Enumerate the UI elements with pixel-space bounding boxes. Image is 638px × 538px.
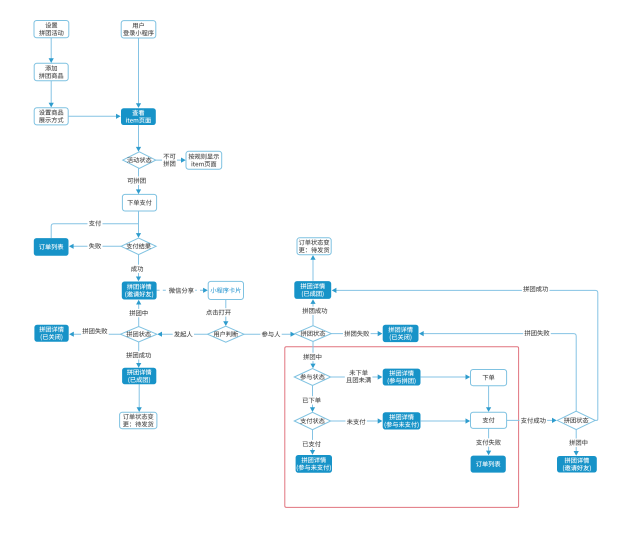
box 拼团详情 邀请好友 右下 bbox=[557, 456, 597, 473]
box 拼团详情 参与拼团 bbox=[383, 369, 421, 386]
label 拼团成功 左 bbox=[125, 351, 153, 359]
diamond 用户判断 bbox=[208, 326, 244, 342]
wire 拼团状态中→参与状态 拼团中 bbox=[310, 342, 315, 369]
wire 用户判断→拼团状态 发起人 bbox=[157, 332, 207, 337]
red highlight frame bbox=[285, 347, 519, 508]
diamond 拼团状态 右 bbox=[557, 411, 595, 429]
wire 支付状态→拼团详情参与未支付2 已支付 bbox=[310, 430, 315, 455]
wire 下单支付→支付结果 bbox=[136, 211, 141, 238]
wire 支付状态→拼团详情参与未支付 未支付 bbox=[331, 418, 383, 423]
wire 拼团状态中→拼团详情已成团 拼团成功 bbox=[310, 299, 315, 326]
label 可拼团 bbox=[126, 177, 147, 185]
wire 活动状态→下单支付 可拼团 bbox=[136, 168, 141, 194]
box 支付 bbox=[471, 412, 507, 428]
label 拼团中 右 bbox=[568, 439, 589, 447]
label 拼团中 左 bbox=[128, 309, 149, 317]
label 发起人 bbox=[173, 330, 194, 338]
label 不可拼团 bbox=[162, 152, 177, 168]
diamond 活动状态 bbox=[123, 152, 156, 169]
label 拼团失败 右 bbox=[523, 329, 551, 337]
wire 支付结果→拼团详情邀请好友 成功 bbox=[136, 255, 141, 282]
wire 用户判断→拼团状态中 参与人 bbox=[244, 332, 295, 337]
wire 添加拼团商品→设置商品展示方式 bbox=[49, 81, 54, 107]
wire 支付→订单列表 支付失败 bbox=[486, 429, 491, 456]
label 拼团失败 左 bbox=[81, 327, 109, 335]
box 订单状态变更待发货 中 bbox=[120, 412, 157, 428]
wire 支付结果→订单列表 失败 bbox=[69, 244, 121, 249]
label 未下单且团未满 bbox=[345, 369, 373, 385]
label 支付 bbox=[88, 219, 103, 227]
label 支付失败 bbox=[475, 438, 503, 446]
wire 拼团详情已成团→订单状态变更 右 bbox=[310, 255, 315, 281]
box 拼团详情 已成团 右 bbox=[294, 281, 331, 299]
label 未支付 bbox=[346, 418, 367, 426]
label 成功 bbox=[130, 265, 145, 273]
wire 参与状态→支付状态 已下单 bbox=[310, 386, 315, 412]
wire 小程序卡片→用户判断 点击打开 bbox=[223, 300, 228, 326]
wire 活动状态→按规则显示item页面 bbox=[156, 158, 186, 163]
box 设置商品展示方式 bbox=[34, 108, 68, 125]
label 参与人 bbox=[260, 330, 281, 338]
box 订单列表 红框内 bbox=[471, 456, 506, 473]
wire 拼团状态右→拼团详情邀请好友右 拼团中 bbox=[574, 430, 579, 456]
diamond 拼团状态 左 bbox=[121, 327, 157, 342]
diamond 拼团状态 中 bbox=[295, 326, 332, 342]
wire 订单列表→支付结果 支付 bbox=[51, 224, 138, 238]
box 下单 bbox=[471, 370, 507, 386]
wire 拼团状态中→拼团详情已关闭 拼团失败 bbox=[331, 331, 382, 336]
box 下单支付 bbox=[122, 194, 156, 211]
diamond 支付结果 bbox=[121, 238, 156, 255]
label 拼团成功 右 bbox=[522, 285, 550, 293]
wire 支付→拼团状态右 支付成功 bbox=[507, 418, 557, 423]
diamond 参与状态 bbox=[294, 369, 330, 386]
label 点击打开 bbox=[205, 308, 233, 316]
wire 查看item页面→活动状态 bbox=[136, 125, 141, 152]
wire 拼团详情参与拼团→下单 bbox=[421, 374, 471, 379]
wire 用户登录小程序→查看item页面 bbox=[136, 38, 141, 108]
label 已下单 bbox=[301, 396, 322, 404]
label 失败 bbox=[88, 242, 103, 250]
box 拼团详情 参与未支付 下 bbox=[296, 455, 332, 473]
label 支付成功 bbox=[520, 416, 548, 424]
box 拼团详情 已成团 中 bbox=[122, 368, 156, 385]
label 拼团中 红框 bbox=[302, 353, 323, 361]
box 订单列表 左 bbox=[34, 238, 69, 256]
wire 拼团详情参与未支付→支付 bbox=[421, 418, 471, 423]
wire 拼团状态→拼团详情已关闭 拼团失败 bbox=[69, 332, 120, 337]
box 设置拼团活动 bbox=[34, 21, 69, 38]
box 用户登录小程序 bbox=[121, 21, 156, 38]
wire 参与状态→拼团详情参与拼团 未下单且团未满 bbox=[331, 374, 383, 379]
diamond 支付状态 bbox=[294, 412, 330, 429]
label 拼团成功 中 bbox=[301, 307, 329, 315]
label 拼团失败 中 bbox=[343, 330, 371, 338]
box 拼团详情 已关闭 右 bbox=[383, 325, 419, 342]
wire 拼团状态→拼团详情邀请好友 拼团中 bbox=[136, 300, 141, 327]
label 已支付 bbox=[301, 440, 322, 448]
wire 拼团详情邀请好友⇢小程序卡片 微信分享 bbox=[157, 288, 208, 293]
box 添加拼团商品 bbox=[34, 63, 68, 81]
box 小程序卡片 bbox=[208, 281, 243, 299]
box 拼团详情 参与未支付 bbox=[383, 412, 421, 429]
wire 拼团状态→拼团详情已成团 拼团成功 bbox=[136, 342, 141, 368]
box 按规则显示item页面 bbox=[186, 151, 222, 169]
wire 下单→支付 bbox=[486, 386, 491, 412]
box 查看item页面 bbox=[121, 108, 156, 125]
wire 设置拼团活动→添加拼团商品 bbox=[49, 38, 54, 63]
wire 拼团详情已成团→订单状态变更 bbox=[137, 384, 142, 412]
box 拼团详情 邀请好友 bbox=[122, 282, 157, 300]
wire 设置商品展示方式→查看item页面 bbox=[68, 114, 121, 119]
wire 拼团状态右→拼团详情已关闭右 拼团失败 bbox=[419, 331, 576, 411]
wire 拼团状态右→拼团详情已成团右 拼团成功 bbox=[332, 288, 598, 421]
box 订单状态变更待发货 右 bbox=[297, 238, 331, 255]
label 微信分享 bbox=[168, 286, 196, 294]
box 拼团详情 已关闭 左 bbox=[34, 325, 68, 342]
